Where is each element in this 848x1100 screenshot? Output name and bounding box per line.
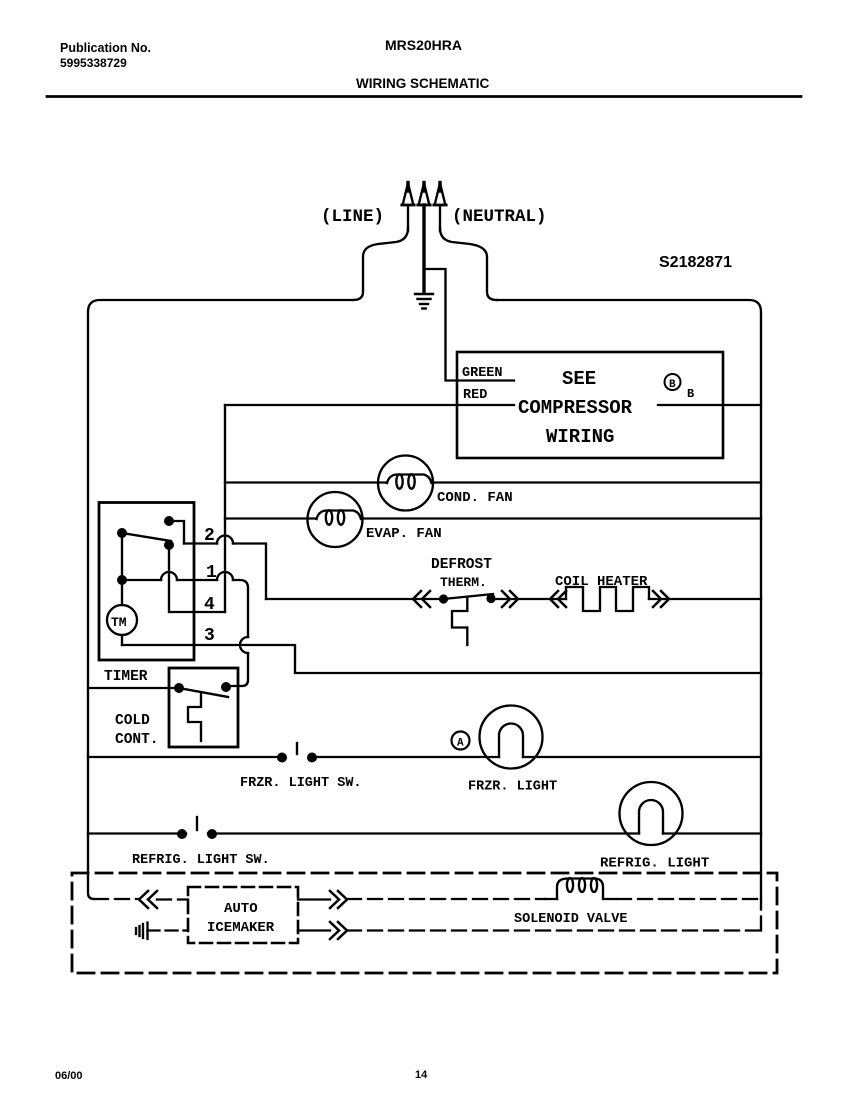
freezer light lamp [480, 706, 543, 769]
timer box [99, 503, 194, 661]
svg-text:MRS20HRA: MRS20HRA [385, 37, 462, 53]
evap fan motor [308, 492, 363, 547]
label DEFROST THERM. [431, 557, 492, 590]
wire TM to terminal 3 [121, 635, 123, 645]
timer motor TM [107, 605, 137, 635]
cold control arm [179, 688, 228, 697]
defrost bellows [452, 598, 467, 645]
svg-text:RED: RED [463, 388, 487, 403]
cold control bellows [188, 693, 201, 741]
timer junction node [117, 575, 127, 585]
connector chevrons heater left [550, 591, 566, 607]
connector chevrons left [413, 591, 430, 607]
wire terminal 1 [122, 580, 248, 686]
connector chevrons icemaker left [139, 891, 157, 908]
header publication text [60, 41, 151, 70]
svg-text:5995338729: 5995338729 [60, 56, 127, 70]
ground symbol [415, 294, 433, 309]
wire to solenoid dashed [347, 898, 761, 900]
svg-text:FRZR. LIGHT: FRZR. LIGHT [468, 780, 557, 795]
svg-text:REFRIG. LIGHT: REFRIG. LIGHT [600, 856, 709, 872]
wire freezer light line [88, 756, 761, 758]
wire green branch [424, 269, 514, 381]
svg-text:GREEN: GREEN [462, 366, 503, 381]
solenoid valve coil [545, 878, 616, 899]
svg-text:EVAP. FAN: EVAP. FAN [366, 526, 442, 542]
connector chevrons heater right [653, 591, 669, 607]
arrow line terminal [402, 183, 414, 232]
svg-text:REFRIG. LIGHT SW.: REFRIG. LIGHT SW. [132, 853, 270, 868]
svg-text:ICEMAKER: ICEMAKER [207, 920, 275, 936]
svg-text:CONT.: CONT. [115, 732, 159, 748]
svg-text:COLD: COLD [115, 713, 150, 729]
svg-text:Publication No.: Publication No. [60, 41, 151, 55]
svg-text:S2182871: S2182871 [659, 254, 732, 271]
water valve connection symbol [136, 923, 148, 940]
arrow neutral terminal [434, 183, 446, 232]
timer contact 2 node [164, 516, 174, 526]
svg-text:TM: TM [111, 615, 127, 630]
terminal A circled [452, 732, 470, 750]
timer contact 1 node [164, 540, 174, 550]
wire heater to right bus [649, 598, 761, 600]
cold control box [169, 668, 238, 747]
wire compressor to right bus [658, 404, 761, 406]
wire neutral-side entry curve [440, 228, 497, 300]
svg-text:COMPRESSOR: COMPRESSOR [518, 397, 633, 419]
wire ground center bold [422, 205, 425, 293]
cond fan motor [378, 456, 433, 511]
svg-text:TIMER: TIMER [104, 669, 148, 685]
svg-text:4: 4 [204, 595, 215, 615]
svg-text:(NEUTRAL): (NEUTRAL) [452, 207, 547, 227]
wire left vertical bus x225 [224, 405, 226, 612]
label AUTO ICEMAKER [207, 901, 275, 936]
wire timer pivot down [121, 533, 123, 605]
defrost thermostat node left [439, 594, 448, 603]
cold control right node [221, 682, 231, 692]
auto icemaker box [188, 887, 298, 943]
svg-text:COND. FAN: COND. FAN [437, 490, 513, 506]
wire solenoid return dashed [347, 899, 761, 931]
label SEE COMPRESSOR WIRING [518, 368, 633, 448]
wire timer contact 2 [169, 521, 184, 544]
svg-text:THERM.: THERM. [440, 575, 487, 590]
arrow ground terminal [418, 183, 430, 206]
svg-text:B: B [687, 387, 694, 401]
wire defrost to heater [495, 598, 566, 600]
svg-text:1: 1 [206, 563, 217, 583]
connector chevrons right [502, 591, 518, 607]
wire cold control feed [88, 687, 176, 689]
wire line-side entry curve [353, 228, 408, 300]
svg-text:WIRING SCHEMATIC: WIRING SCHEMATIC [356, 76, 489, 91]
coil heater element [566, 587, 649, 611]
timer pivot node [117, 528, 127, 538]
svg-text:06/00: 06/00 [55, 1070, 83, 1082]
wire icemaker bottom line dashed [148, 929, 189, 931]
hump terminal 1 over wire 3 [240, 637, 248, 653]
svg-text:3: 3 [204, 626, 215, 646]
wire evap fan line [225, 517, 761, 519]
wire cond fan line [225, 481, 761, 483]
wire refrig light line [88, 832, 761, 834]
wire defrost line left [266, 598, 440, 600]
terminal B circled [665, 374, 681, 391]
svg-text:B: B [669, 379, 676, 391]
svg-text:DEFROST: DEFROST [431, 557, 492, 573]
outer box right bus [497, 300, 761, 899]
svg-text:14: 14 [415, 1069, 428, 1081]
label COLD CONT. [115, 713, 159, 748]
svg-text:FRZR. LIGHT SW.: FRZR. LIGHT SW. [240, 776, 362, 791]
wire icemaker bottom right [298, 929, 330, 931]
hump terminal 1 over contact wire [161, 572, 177, 580]
timer switch arm [122, 533, 171, 541]
wire icemaker top right [298, 898, 330, 900]
svg-text:AUTO: AUTO [224, 901, 258, 917]
freezer light switch [277, 743, 317, 763]
cold control left node [174, 683, 184, 693]
header rule [47, 95, 801, 98]
wire contact to terminal 4 [169, 545, 225, 612]
connector chevrons icemaker out top [330, 891, 347, 908]
svg-text:(LINE): (LINE) [321, 207, 384, 227]
svg-text:SOLENOID VALVE: SOLENOID VALVE [514, 912, 627, 927]
wire terminal 3 [122, 645, 761, 673]
wire red to compressor [225, 404, 514, 406]
svg-text:WIRING: WIRING [546, 426, 614, 448]
outer box left bus [88, 300, 353, 899]
svg-text:SEE: SEE [562, 368, 596, 390]
connector chevrons icemaker out bottom [330, 922, 347, 939]
icemaker dashed enclosure [72, 873, 777, 973]
hump terminal 2 over bus [217, 536, 233, 544]
svg-text:2: 2 [204, 526, 215, 546]
svg-text:A: A [457, 738, 464, 750]
defrost thermostat arm [444, 594, 494, 599]
hump terminal 1 over bus [217, 572, 233, 580]
defrost thermostat node right [486, 594, 495, 603]
refrig light lamp [620, 782, 683, 845]
compressor wiring box [457, 352, 723, 458]
refrig light switch [177, 817, 217, 839]
wire icemaker top line dashed [94, 898, 188, 901]
wire terminal 2 [184, 544, 266, 600]
